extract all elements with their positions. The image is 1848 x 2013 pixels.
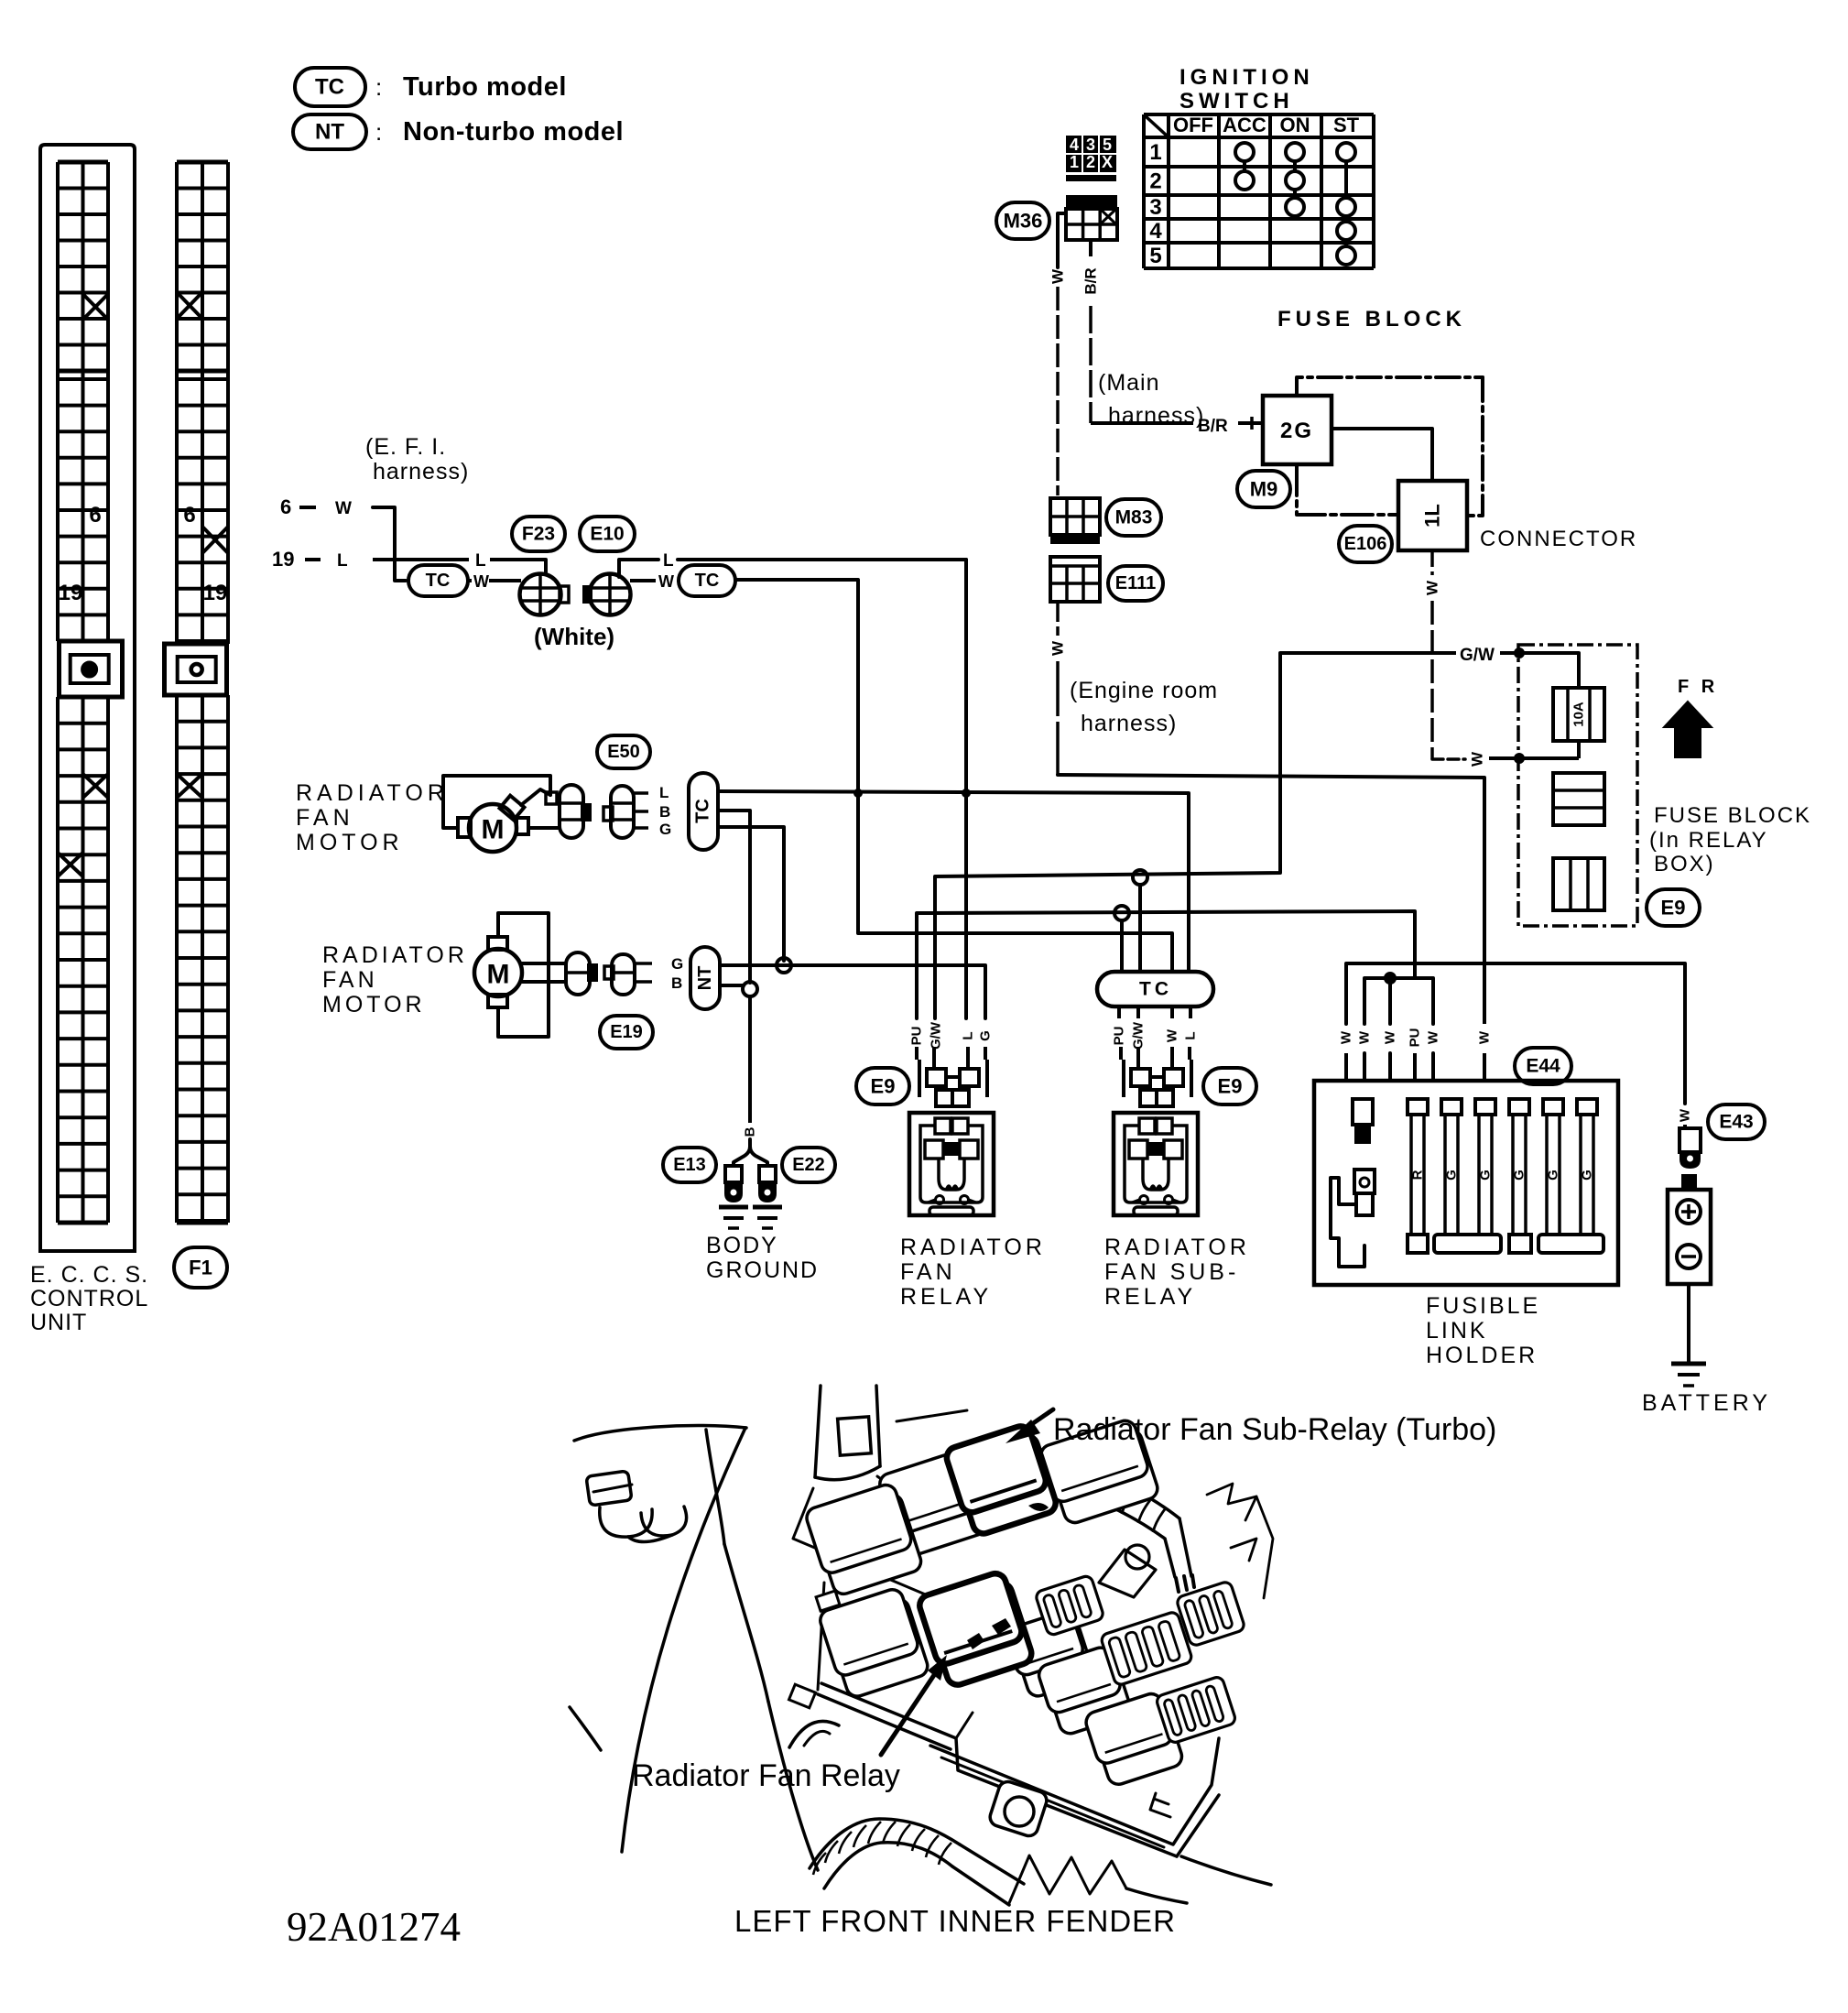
wire B from NT pill join ground wire [720, 984, 744, 987]
fuse 10A [1553, 688, 1604, 741]
fusible link top bracket [1364, 978, 1433, 1024]
junction circle PU to TC pill [1114, 906, 1129, 920]
svg-text:CONNECTOR: CONNECTOR [1480, 527, 1637, 551]
svg-text:G: G [659, 821, 671, 838]
svg-text:FUSE BLOCK: FUSE BLOCK [1277, 307, 1466, 332]
illustration: slotted fuse strips [1035, 1574, 1104, 1636]
E.C.C.S. pin-6/19 target connector box (left) [60, 641, 123, 697]
illustration: relay box rim and plate [818, 1583, 1219, 1856]
svg-text:BATTERY: BATTERY [1642, 1390, 1771, 1416]
connector label E10 [580, 517, 635, 551]
svg-text:W: W [1383, 1030, 1398, 1044]
svg-text:W: W [1049, 640, 1067, 656]
connector label E9 (left relay) [856, 1068, 909, 1104]
svg-text:G: G [1444, 1170, 1460, 1181]
junction circle B net [743, 982, 757, 996]
svg-text:6: 6 [89, 503, 101, 528]
illustration: relay cubes back row [804, 1417, 1160, 1598]
connector label E13 [663, 1148, 716, 1182]
connector 1L box [1398, 481, 1467, 550]
svg-text:E22: E22 [792, 1155, 825, 1175]
wires TC pill bottom to relay 2 [1117, 1006, 1121, 1018]
svg-text:RADIATOR: RADIATOR [296, 780, 449, 806]
fusible link holder box E44 [1314, 1081, 1618, 1285]
svg-text:19: 19 [203, 581, 228, 605]
inline connector TC pill (motor1, vertical) [689, 773, 718, 850]
svg-text:E9: E9 [871, 1075, 896, 1098]
legend TC = Turbo model [295, 68, 365, 106]
connector E10 (white, round) [582, 574, 631, 615]
connector pair E50 (motor 1) [560, 785, 648, 838]
svg-text:harness): harness) [373, 459, 469, 484]
svg-text:ST: ST [1333, 114, 1360, 136]
connector grid F1 (right) [177, 162, 228, 1223]
svg-text:F23: F23 [522, 524, 555, 545]
wire W E111-net right portion to E43 [1346, 963, 1685, 1104]
svg-text:LEFT FRONT INNER FENDER: LEFT FRONT INNER FENDER [734, 1904, 1176, 1938]
wire B/R from M36 [1089, 240, 1092, 256]
connector label E106 [1339, 526, 1392, 562]
svg-text:L: L [961, 1031, 976, 1039]
svg-text:FAN: FAN [322, 967, 378, 993]
svg-text:10A: 10A [1571, 702, 1587, 727]
svg-text:B: B [671, 974, 682, 992]
svg-text:W: W [1477, 1030, 1493, 1044]
connector label E19 [600, 1016, 653, 1049]
svg-text:ACC: ACC [1223, 114, 1266, 136]
wire L from E10 to right [619, 560, 658, 577]
illustration: pleated boot bottom right [1009, 1855, 1126, 1903]
connector grid E111 [1050, 557, 1100, 602]
svg-text:G: G [978, 1030, 994, 1041]
connector label E22 [782, 1148, 835, 1182]
svg-text:E19: E19 [610, 1022, 643, 1042]
relay radiator fan relay (E9) [909, 1047, 994, 1215]
svg-text:6: 6 [280, 495, 291, 518]
svg-text:FUSE BLOCK: FUSE BLOCK [1654, 803, 1811, 828]
svg-text:NT: NT [315, 120, 344, 145]
svg-text:MOTOR: MOTOR [296, 830, 404, 855]
svg-text:19: 19 [59, 581, 83, 605]
svg-text:(Engine room: (Engine room [1070, 678, 1218, 703]
svg-text:F R: F R [1678, 677, 1718, 697]
connector label E44 [1515, 1048, 1571, 1084]
wire G/W from fuse block [1280, 651, 1456, 655]
svg-text:E10: E10 [590, 524, 624, 545]
svg-text:TC: TC [426, 571, 451, 591]
illustration: torn edge shapes right [1207, 1484, 1273, 1598]
wire G from NT pill to relay 1 [720, 965, 985, 1018]
legend NT = Non-turbo model [293, 114, 366, 149]
connector E43 [1680, 1128, 1701, 1152]
svg-text:W: W [1424, 580, 1441, 595]
F1 pin target connector box (right) [165, 644, 227, 695]
svg-text::: : [375, 118, 382, 146]
svg-text:2: 2 [1086, 153, 1095, 171]
svg-text:M83: M83 [1115, 507, 1153, 528]
svg-text:3: 3 [1149, 195, 1161, 220]
svg-text:L: L [659, 784, 669, 801]
svg-text:UNIT: UNIT [30, 1310, 87, 1335]
svg-text::: : [375, 73, 382, 101]
svg-text:W: W [335, 499, 352, 518]
illustration: corrugated tube top [1023, 1453, 1194, 1592]
radiator fan motor 1 [443, 776, 560, 852]
svg-text:E111: E111 [1115, 573, 1157, 593]
svg-text:CONTROL: CONTROL [30, 1286, 148, 1311]
wire to body ground [748, 996, 752, 1123]
wire L from TC pill to relay2 [718, 791, 1189, 972]
svg-text:4: 4 [1070, 136, 1079, 154]
svg-text:1L: 1L [1421, 504, 1444, 528]
wire PU net horizontal [917, 911, 1415, 1018]
connector grid (4 3 5 / 1 2 X) above M36 [1066, 136, 1116, 181]
illustration: strut pillar [793, 1386, 967, 1598]
svg-text:19: 19 [272, 548, 294, 571]
svg-text:F1: F1 [189, 1257, 212, 1279]
illustration: rim tabs [789, 1684, 816, 1708]
leader line radiator fan relay [881, 1672, 936, 1755]
svg-text:W: W [1678, 1108, 1693, 1122]
svg-text:E9: E9 [1218, 1075, 1243, 1098]
svg-text:PU: PU [909, 1027, 925, 1046]
illustration: small step bracket on plate [1150, 1793, 1170, 1817]
svg-text:W: W [473, 572, 489, 591]
wire G/W horizontal with junction to TC pill [1133, 870, 1147, 885]
fuse block bottom fuse [1553, 858, 1604, 910]
body ground symbol E13 [725, 1166, 742, 1182]
E.C.C.S. outer case border [40, 145, 135, 1251]
inline connector NT pill (motor2, vertical) [690, 947, 720, 1009]
svg-text:W: W [1469, 751, 1486, 767]
illustration: clamp bracket left [586, 1471, 687, 1542]
connector label F1 [174, 1247, 227, 1288]
svg-text:E106: E106 [1344, 534, 1387, 554]
svg-text:E9: E9 [1661, 897, 1686, 919]
illustration: relay cubes middle row [818, 1586, 1096, 1701]
svg-text:G: G [1546, 1170, 1561, 1181]
svg-text:1: 1 [1070, 153, 1079, 171]
wire W below connector 1L [1430, 550, 1434, 575]
connector grid E.C.C.S. control unit (left) [58, 162, 108, 1223]
svg-text:PU: PU [1408, 1028, 1423, 1048]
ground symbol (battery) [1671, 1362, 1706, 1366]
svg-text:B: B [743, 1126, 758, 1137]
svg-text:ON: ON [1280, 114, 1310, 136]
svg-text:B/R: B/R [1082, 267, 1100, 294]
wire W from E111 down to fuse block area [1056, 602, 1060, 636]
svg-text:W: W [1357, 1030, 1373, 1044]
svg-text:(Main: (Main [1098, 370, 1160, 396]
svg-text:TC: TC [693, 799, 713, 823]
svg-text:E50: E50 [607, 742, 640, 762]
wire 2G top to right dash-dot [1297, 377, 1483, 396]
wire battery to ground [1687, 1284, 1690, 1362]
svg-text:G/W: G/W [929, 1021, 944, 1050]
svg-text:W: W [1165, 1028, 1180, 1042]
svg-text:PU: PU [1112, 1027, 1127, 1046]
illustration: radiator fan relay (dark cube) [917, 1570, 1034, 1689]
svg-text:NT: NT [695, 966, 715, 991]
wire 2G right to connector top [1332, 429, 1432, 481]
inline connector TC pill 2 [679, 565, 735, 596]
connector label E43 [1708, 1104, 1765, 1139]
illustration: corrugated tube bottom [810, 1819, 1024, 1905]
svg-text:L: L [337, 551, 348, 571]
ignition switch table [1144, 114, 1374, 268]
fusible link holder interior [1331, 1099, 1603, 1267]
svg-text:4: 4 [1149, 219, 1162, 244]
svg-text:TC: TC [315, 75, 344, 100]
svg-text:LINK: LINK [1426, 1318, 1488, 1344]
fuse 2G box [1263, 396, 1332, 464]
wire B from TC pill to body ground [718, 811, 750, 983]
svg-text:RELAY: RELAY [900, 1284, 992, 1310]
wire W from M36 [1058, 213, 1066, 267]
connector F23 (white, round) [520, 574, 570, 615]
svg-text:G/W: G/W [1131, 1021, 1147, 1050]
radiator fan motor 2 [474, 913, 566, 1037]
junction circle G net [777, 958, 791, 973]
svg-text:harness): harness) [1081, 711, 1177, 736]
svg-text:E43: E43 [1719, 1112, 1753, 1133]
svg-text:E13: E13 [673, 1155, 706, 1175]
svg-text:SWITCH: SWITCH [1179, 89, 1294, 114]
fuse block middle fuse [1553, 773, 1604, 825]
wire W from E10 to TC pill [630, 579, 656, 582]
svg-text:W: W [658, 572, 674, 591]
svg-text:Radiator Fan Relay: Radiator Fan Relay [632, 1758, 900, 1793]
illustration: bolt hole tab [988, 1779, 1049, 1838]
svg-text:W: W [1339, 1030, 1354, 1044]
svg-text:5: 5 [1149, 244, 1161, 268]
svg-text:TC: TC [695, 571, 720, 591]
svg-text:RELAY: RELAY [1104, 1284, 1196, 1310]
relay radiator fan sub-relay (E9) [1114, 1047, 1198, 1215]
svg-text:OFF: OFF [1173, 114, 1213, 136]
svg-text:W: W [1426, 1030, 1441, 1044]
svg-text:MOTOR: MOTOR [322, 992, 426, 1017]
svg-text:GROUND: GROUND [706, 1257, 819, 1283]
wire G/W down-left to relays [935, 653, 1280, 1018]
inline connector TC pill (EFI) [408, 565, 468, 596]
illustration: relay cubes front row [1037, 1644, 1185, 1789]
connector label M36 [996, 202, 1049, 239]
leader arrow radiator fan sub-relay [1024, 1409, 1053, 1430]
svg-text:B: B [659, 803, 670, 821]
svg-text:(White): (White) [534, 623, 614, 650]
connector pair E19 (motor 2) [566, 952, 652, 995]
svg-text:IGNITION: IGNITION [1179, 65, 1314, 90]
svg-text:FAN: FAN [900, 1259, 956, 1285]
svg-text:L: L [475, 551, 486, 571]
svg-text:FAN: FAN [296, 805, 354, 831]
svg-text:RADIATOR: RADIATOR [1104, 1235, 1250, 1260]
svg-text:2: 2 [1149, 169, 1161, 194]
wire W net from TC pill 2 [735, 580, 1172, 972]
inline connector TC pill (sub-relay, horizontal) [1097, 972, 1213, 1006]
illustration: radiator fan sub-relay (dark cube) [944, 1422, 1059, 1538]
svg-text:5: 5 [1103, 136, 1112, 154]
svg-text:G/W: G/W [1460, 646, 1495, 665]
connector label E50 [597, 735, 650, 768]
illustration: tube clamp with circle [1099, 1545, 1156, 1597]
svg-text:M: M [487, 960, 510, 990]
body ground symbol E22 [759, 1166, 776, 1182]
svg-text:M36: M36 [1004, 210, 1043, 233]
svg-text:TC: TC [1139, 979, 1172, 1000]
svg-text:E44: E44 [1526, 1056, 1560, 1077]
svg-text:harness): harness) [1108, 403, 1204, 429]
wire 2G bottom to connector left [1297, 464, 1398, 515]
svg-text:1: 1 [1149, 140, 1161, 165]
svg-text:FAN SUB-: FAN SUB- [1104, 1259, 1239, 1285]
fuse block (in relay box) dash-dot border [1518, 645, 1637, 926]
svg-text:G: G [1478, 1170, 1494, 1181]
svg-text:2G: 2G [1280, 419, 1313, 443]
svg-text:Radiator Fan Sub-Relay (Turbo): Radiator Fan Sub-Relay (Turbo) [1053, 1412, 1496, 1447]
svg-text:(E. F. I.: (E. F. I. [365, 434, 446, 460]
svg-text:L: L [663, 551, 674, 571]
svg-text:6: 6 [183, 503, 195, 528]
svg-text:92A01274: 92A01274 [287, 1904, 461, 1950]
svg-text:BOX): BOX) [1654, 852, 1715, 876]
svg-text:Turbo model: Turbo model [403, 72, 567, 102]
wire L net vertical [964, 560, 968, 1018]
connector label E9 (fuse block) [1647, 889, 1700, 926]
svg-text:BODY: BODY [706, 1233, 778, 1258]
connector label M9 [1237, 471, 1290, 507]
svg-text:RADIATOR: RADIATOR [322, 942, 468, 968]
svg-text:X: X [1102, 153, 1113, 171]
svg-text:G: G [671, 955, 683, 973]
svg-text:HOLDER: HOLDER [1426, 1343, 1538, 1368]
connector grid M83 [1050, 498, 1100, 544]
svg-text:W: W [1049, 268, 1067, 284]
connector label E111 [1108, 566, 1163, 601]
connector M36 grid [1066, 195, 1117, 240]
svg-text:FUSIBLE: FUSIBLE [1426, 1293, 1540, 1319]
connector label F23 [512, 517, 565, 551]
svg-text:R: R [1410, 1170, 1426, 1180]
svg-text:M: M [482, 815, 505, 845]
svg-text:RADIATOR: RADIATOR [900, 1235, 1046, 1260]
ignition switch contact circles [1235, 143, 1355, 265]
svg-text:M9: M9 [1250, 478, 1278, 501]
connector label E9 (right relay) [1203, 1068, 1256, 1104]
svg-text:Non-turbo model: Non-turbo model [403, 117, 624, 147]
svg-text:G: G [1580, 1170, 1595, 1181]
svg-text:L: L [1183, 1031, 1199, 1039]
wire G from TC pill down to junction [718, 827, 784, 961]
battery [1668, 1174, 1711, 1284]
svg-text:(In RELAY: (In RELAY [1649, 828, 1768, 853]
svg-text:3: 3 [1086, 136, 1095, 154]
connector label M83 [1106, 499, 1161, 536]
svg-text:G: G [1512, 1170, 1527, 1181]
svg-text:E. C. C. S.: E. C. C. S. [30, 1262, 148, 1288]
illustration: fender curves [570, 1426, 839, 1870]
